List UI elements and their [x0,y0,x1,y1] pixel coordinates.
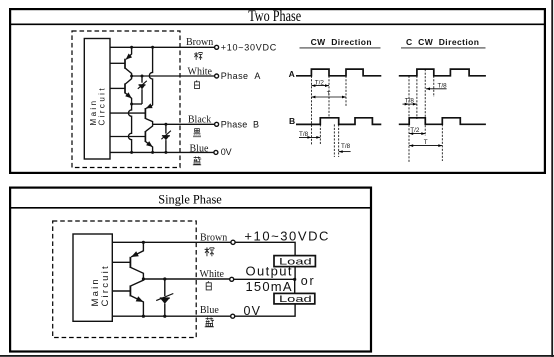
svg-text:Brown: Brown [200,232,227,243]
svg-text:Black: Black [188,115,211,126]
svg-text:or: or [301,274,314,288]
svg-text:Blue: Blue [200,305,219,316]
svg-text:T/8: T/8 [438,83,448,90]
svg-text:White: White [200,269,225,280]
svg-text:Circuit: Circuit [98,86,107,125]
svg-text:T: T [327,91,331,98]
svg-text:Circuit: Circuit [100,264,111,306]
svg-text:T/8: T/8 [341,143,351,150]
svg-text:C CW Direction: C CW Direction [406,37,479,47]
svg-text:Phase A: Phase A [221,71,261,81]
svg-text:+10~30VDC: +10~30VDC [221,43,277,53]
svg-text:T: T [424,139,428,146]
svg-text:Phase B: Phase B [221,119,259,129]
svg-text:White: White [188,66,213,77]
svg-text:T/2: T/2 [315,80,325,87]
svg-text:Load: Load [279,294,312,305]
svg-text:150mA: 150mA [246,279,292,294]
svg-text:0V: 0V [221,147,232,157]
svg-text:B: B [289,116,295,126]
svg-text:0V: 0V [244,304,261,318]
svg-text:A: A [289,69,295,79]
svg-text:+10~30VDC: +10~30VDC [244,228,328,243]
svg-text:T/8: T/8 [405,97,415,104]
svg-text:T/2: T/2 [410,127,420,134]
svg-text:Output: Output [246,264,292,279]
svg-text:Blue: Blue [190,143,209,154]
svg-text:Single Phase: Single Phase [158,193,222,207]
svg-text:Brown: Brown [186,37,213,48]
svg-text:Two Phase: Two Phase [248,8,301,25]
svg-text:T/8: T/8 [299,131,309,138]
svg-text:CW Direction: CW Direction [311,37,372,47]
